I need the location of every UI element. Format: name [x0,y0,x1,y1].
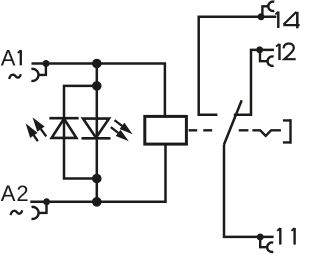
AC tilde under A1 [9,74,21,79]
svg-text:A: A [1,45,16,70]
LED D2 light arrow lower [111,127,129,141]
relay coil K1 [145,116,187,144]
svg-text:A: A [1,181,16,206]
switch lever [224,100,242,144]
label 12 digit 2 [284,44,296,60]
junction J1 [92,59,102,69]
clamp curl 12 [268,56,274,65]
clamp lead 11 [260,239,267,248]
mechanical link dashes [189,129,249,131]
junction J2 [92,81,102,91]
clamp lead 14 [262,6,268,14]
clamp curl 14 [268,2,274,11]
clamp lead 12 [260,52,268,61]
AC tilde under A2 [11,210,23,215]
label A1 [1,45,16,70]
label 12 digit 1 [276,44,280,60]
terminal dot A1 [43,60,50,67]
mechanical link kink [252,130,281,136]
junction J3 [92,174,102,184]
clamp curl A2 [32,207,39,219]
wire common to terminal 11 [224,145,274,237]
LED D2 cathode bar [82,137,111,140]
clamp curl 11 [267,243,273,252]
terminal dot 14 [258,13,265,20]
LED D2 light arrow upper [115,120,133,134]
LED D1 triangle [52,119,77,138]
wire J1 down through right LED to A2 wire [96,64,99,202]
terminal dot 12 [256,46,263,53]
LED D1 light arrow lower [26,123,38,141]
junction J4 [92,197,102,207]
wire terminal 12 to NC contact [234,50,274,115]
actuator bracket [283,119,291,144]
label A2 [1,181,29,206]
wire terminal 14 to NO contact [199,17,277,115]
clamp curl A1 [31,69,38,81]
LED D1 cathode bar [49,117,78,120]
wire A1 to coil top [32,64,165,117]
label 11 digit 1a [277,228,280,245]
label 11 digit 1b [292,228,295,245]
label 14 digit 4 [283,12,299,29]
LED D2 triangle [83,119,109,138]
LED D1 light arrow upper [33,117,47,136]
wire A2 to coil bottom [30,144,165,202]
terminal dot A2 [43,198,50,205]
terminal dot 11 [257,234,264,241]
svg-text:2: 2 [16,181,28,206]
clamp lead A1 [38,64,46,75]
label A1 digit 1 [18,50,21,65]
clamp lead A2 [38,202,46,213]
label 14 digit 1 [275,12,278,29]
wire left LED branch [64,86,97,179]
